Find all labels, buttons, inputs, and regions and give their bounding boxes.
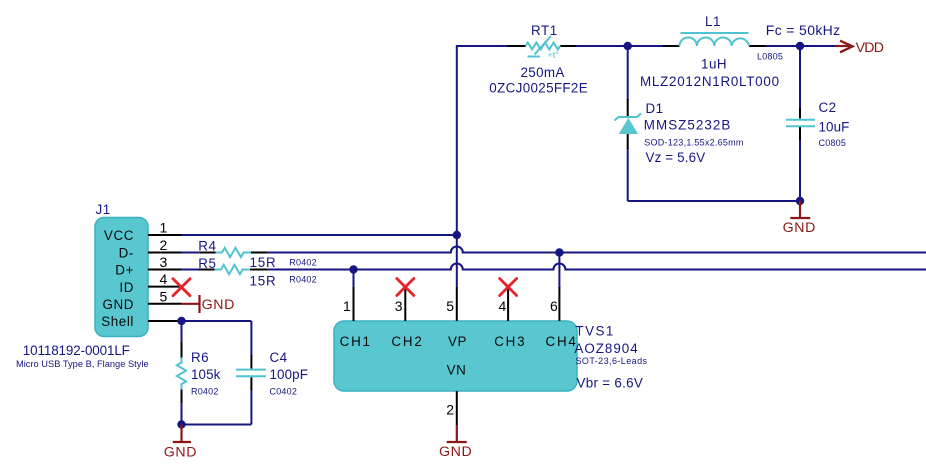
svg-text:C4: C4	[270, 350, 288, 365]
svg-text:RT1: RT1	[531, 23, 558, 38]
svg-text:5: 5	[446, 298, 454, 314]
svg-text:3: 3	[160, 254, 168, 270]
svg-text:SOD-123,1.55x2.65mm: SOD-123,1.55x2.65mm	[644, 138, 743, 148]
svg-text:C0805: C0805	[819, 138, 847, 148]
svg-text:2: 2	[446, 402, 454, 418]
svg-text:VDD: VDD	[856, 40, 884, 56]
svg-text:105k: 105k	[191, 367, 221, 382]
svg-text:0ZCJ0025FF2E: 0ZCJ0025FF2E	[489, 81, 588, 96]
svg-text:GND: GND	[783, 220, 816, 236]
svg-text:CH4: CH4	[545, 334, 577, 349]
svg-text:15R: 15R	[250, 255, 277, 270]
svg-text:GND: GND	[439, 444, 472, 460]
svg-text:100pF: 100pF	[270, 367, 308, 382]
svg-text:VN: VN	[447, 363, 467, 378]
svg-text:1uH: 1uH	[701, 57, 727, 72]
svg-text:J1: J1	[96, 202, 111, 217]
svg-text:L1: L1	[705, 14, 721, 29]
svg-text:L0805: L0805	[757, 52, 783, 62]
svg-text:1: 1	[343, 298, 351, 314]
svg-text:15R: 15R	[250, 273, 277, 288]
svg-text:10uF: 10uF	[819, 120, 850, 135]
svg-text:3: 3	[395, 298, 403, 314]
svg-text:R0402: R0402	[191, 387, 219, 397]
svg-text:4: 4	[160, 271, 168, 287]
svg-text:SOT-23,6-Leads: SOT-23,6-Leads	[576, 356, 648, 366]
svg-text:4: 4	[499, 298, 507, 314]
svg-text:R4: R4	[198, 239, 216, 254]
svg-text:5: 5	[160, 288, 168, 304]
svg-text:MMSZ5232B: MMSZ5232B	[644, 118, 732, 133]
svg-text:250mA: 250mA	[521, 65, 565, 80]
svg-text:D+: D+	[115, 263, 134, 278]
svg-text:CH3: CH3	[494, 334, 526, 349]
svg-text:R0402: R0402	[289, 258, 317, 268]
svg-text:TVS1: TVS1	[575, 323, 615, 338]
svg-text:Vz = 5.6V: Vz = 5.6V	[646, 150, 706, 165]
svg-text:Shell: Shell	[101, 314, 134, 329]
svg-text:R5: R5	[198, 256, 216, 271]
svg-text:VP: VP	[448, 334, 467, 349]
svg-text:Vbr = 6.6V: Vbr = 6.6V	[577, 376, 644, 391]
svg-text:+t°: +t°	[548, 50, 560, 60]
svg-text:C0402: C0402	[270, 387, 298, 397]
svg-text:MLZ2012N1R0LT000: MLZ2012N1R0LT000	[640, 74, 780, 89]
svg-text:CH2: CH2	[391, 334, 423, 349]
svg-text:D1: D1	[646, 101, 664, 116]
svg-text:Fc = 50kHz: Fc = 50kHz	[766, 22, 841, 38]
svg-text:Micro USB Type B, Flange Style: Micro USB Type B, Flange Style	[16, 359, 149, 369]
svg-text:C2: C2	[819, 100, 837, 115]
svg-text:GND: GND	[102, 297, 134, 312]
svg-text:ID: ID	[119, 280, 134, 295]
svg-text:R0402: R0402	[289, 275, 317, 285]
svg-text:CH1: CH1	[340, 334, 372, 349]
svg-text:GND: GND	[164, 444, 197, 460]
svg-text:VCC: VCC	[104, 228, 134, 243]
svg-text:AOZ8904: AOZ8904	[574, 341, 638, 356]
svg-text:D-: D-	[119, 245, 134, 260]
svg-text:10118192-0001LF: 10118192-0001LF	[23, 343, 130, 358]
svg-text:R6: R6	[191, 350, 209, 365]
svg-text:1: 1	[160, 220, 168, 236]
svg-text:GND: GND	[202, 297, 235, 313]
svg-text:6: 6	[550, 298, 558, 314]
svg-text:2: 2	[160, 237, 168, 253]
